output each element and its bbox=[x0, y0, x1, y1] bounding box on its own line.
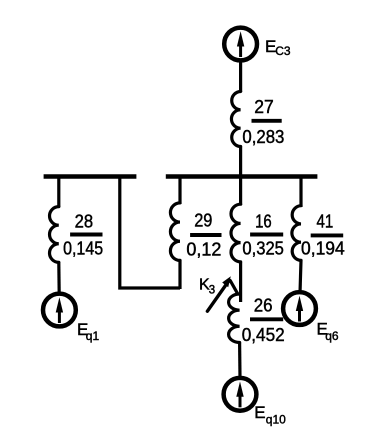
svg-text:0,452: 0,452 bbox=[242, 324, 285, 345]
wire reactor 26 to E_q10 bbox=[238, 343, 242, 379]
svg-text:0,145: 0,145 bbox=[63, 238, 103, 259]
label K3 bbox=[199, 277, 215, 297]
svg-text:0,283: 0,283 bbox=[242, 126, 284, 147]
left bus bar bbox=[44, 174, 137, 178]
label E_C3 bbox=[265, 37, 291, 58]
reactor 29 coil bbox=[170, 203, 180, 261]
value label 29 / 0,12 bbox=[186, 209, 221, 259]
svg-text:E: E bbox=[254, 403, 265, 422]
reactor 28 coil bbox=[50, 207, 59, 263]
fault arrow K3 (lightning bolt) bbox=[207, 276, 237, 311]
wire right bus to reactor 29 bbox=[178, 175, 181, 205]
svg-text:0,325: 0,325 bbox=[242, 238, 284, 259]
reactor 26 coil bbox=[229, 294, 240, 343]
svg-text:q6: q6 bbox=[325, 329, 339, 343]
svg-text:q1: q1 bbox=[86, 329, 100, 343]
svg-text:C3: C3 bbox=[275, 44, 291, 58]
svg-text:q10: q10 bbox=[266, 413, 286, 427]
reactor 27 coil bbox=[231, 92, 240, 147]
reactor 41 coil bbox=[292, 206, 301, 261]
label E_q6 bbox=[317, 319, 339, 343]
EMF source E_q1 bbox=[43, 294, 76, 327]
reactor 16 coil bbox=[231, 204, 241, 262]
right bus bar bbox=[166, 174, 318, 178]
svg-text:0,194: 0,194 bbox=[301, 238, 345, 259]
wire reactor 27 through bus to reactor 16 bbox=[239, 147, 242, 206]
svg-text:0,12: 0,12 bbox=[186, 239, 221, 260]
wire reactor 16 to reactor 26, fault node bbox=[239, 262, 242, 302]
svg-text:41: 41 bbox=[317, 211, 334, 232]
value label 27 / 0,283 bbox=[242, 96, 284, 147]
wire left bus to reactor 28 bbox=[57, 175, 60, 208]
value label 28 / 0,145 bbox=[63, 210, 103, 258]
EMF source E_q6 bbox=[283, 292, 316, 325]
value label 41 / 0,194 bbox=[301, 211, 345, 259]
wire reactor 29 to tie corner bbox=[178, 260, 181, 289]
wire reactor 28 to E_q1 bbox=[57, 262, 61, 294]
tie wire left bus to reactor 29 branch bbox=[120, 175, 180, 289]
svg-text:16: 16 bbox=[255, 210, 272, 231]
svg-text:27: 27 bbox=[254, 96, 273, 117]
EMF source E_q10 bbox=[224, 378, 257, 411]
value label 16 / 0,325 bbox=[242, 210, 284, 258]
svg-text:3: 3 bbox=[209, 285, 215, 297]
label E_q1 bbox=[77, 320, 99, 343]
label E_q10 bbox=[254, 403, 286, 427]
svg-text:26: 26 bbox=[254, 294, 273, 315]
svg-text:29: 29 bbox=[194, 209, 212, 230]
EMF source E_C3 bbox=[224, 28, 257, 61]
wire reactor 41 to E_q6 bbox=[300, 260, 301, 293]
wire right bus to reactor 41 bbox=[299, 175, 302, 208]
svg-text:28: 28 bbox=[75, 210, 94, 231]
value label 26 / 0,452 bbox=[242, 294, 285, 345]
wire E_C3 to reactor 27 bbox=[239, 61, 242, 93]
